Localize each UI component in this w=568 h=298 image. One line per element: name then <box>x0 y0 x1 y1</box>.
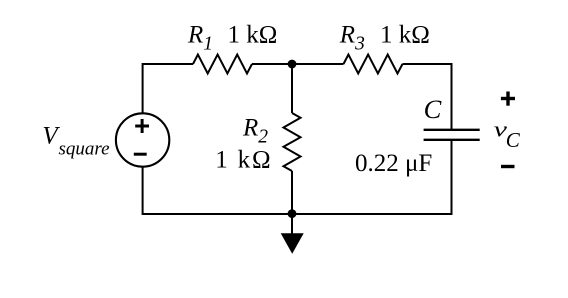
resistor R1 <box>193 55 252 74</box>
svg-text:1 kΩ: 1 kΩ <box>228 22 278 49</box>
voltage source V_square circle <box>116 113 169 166</box>
wire: middle rail from R2 down to node B <box>291 171 293 214</box>
wire: bottom from node B to source bottom <box>143 167 292 215</box>
wire: top middle between R1 and node A <box>252 63 292 65</box>
capacitor C plates <box>424 130 480 140</box>
voltage source minus sign <box>134 153 147 156</box>
wire: ground stub below node B <box>291 214 293 234</box>
wire: middle rail from node A down to R2 <box>291 64 293 113</box>
wire: top-left segment from source top up and right to R1 <box>143 64 193 114</box>
ground symbol (filled triangle) <box>281 233 304 254</box>
svg-text:1 kΩ: 1 kΩ <box>215 147 272 174</box>
label vC polarity plus <box>501 92 515 106</box>
svg-text:0.22 μF: 0.22 μF <box>355 150 432 177</box>
wire: top-right from R3 to right rail and down to capacitor <box>403 64 452 130</box>
node B junction dot (bottom middle, ground node) <box>288 209 297 218</box>
voltage source plus sign <box>135 119 149 133</box>
svg-text:C: C <box>506 128 521 152</box>
label vC polarity minus <box>501 165 515 168</box>
label vC <box>494 117 521 152</box>
resistor R2 <box>284 113 301 171</box>
resistor R3 <box>344 55 403 74</box>
svg-text:1 kΩ: 1 kΩ <box>380 22 430 49</box>
wire: top from node A to R3 <box>292 63 344 65</box>
node A junction dot (top middle) <box>288 60 297 69</box>
wire: right rail below capacitor down to bottom wire <box>292 140 452 214</box>
svg-text:C: C <box>424 94 442 124</box>
